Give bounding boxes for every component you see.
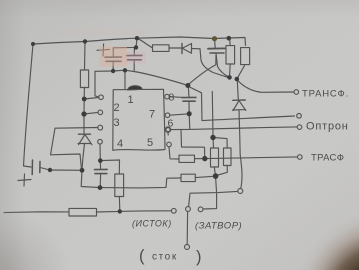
wire stok drop bbox=[186, 212, 188, 245]
wire pin5 to R3 bbox=[169, 147, 179, 159]
wire R4 to node B bbox=[195, 176, 215, 177]
resistor R5 bbox=[211, 148, 219, 167]
IC notch bbox=[128, 86, 143, 90]
wire R8 bottom bbox=[229, 64, 232, 77]
wire caps run to node8 bbox=[137, 72, 188, 85]
capacitor C5 bbox=[95, 161, 108, 188]
wire R3 to node A bbox=[195, 158, 205, 160]
wire R1 to diode bbox=[169, 47, 182, 49]
resistor R3 bbox=[179, 155, 195, 162]
wire node B down to gate bbox=[203, 176, 216, 209]
pin 4 circle bbox=[98, 139, 103, 144]
wire pin6 to optron lower bbox=[170, 127, 296, 130]
wire pin7 to node bbox=[170, 114, 189, 115]
resistor R6 bbox=[224, 148, 232, 166]
wire pin4 down bbox=[99, 144, 101, 161]
wire R2 bottom bbox=[118, 197, 120, 212]
wire node down to pin6 line bbox=[188, 114, 191, 130]
pin 6 circle bbox=[166, 127, 171, 132]
terminal stok bbox=[185, 245, 190, 250]
wire gnd run down-right bbox=[81, 170, 100, 187]
plus mark C1 bbox=[18, 174, 31, 186]
resistor R9 bbox=[241, 48, 250, 65]
wire node A to TRASF bbox=[205, 157, 297, 159]
wire node8 NE diagonal bbox=[188, 55, 217, 85]
pin 8 circle bbox=[165, 94, 170, 99]
terminal transf bbox=[294, 90, 299, 95]
terminal gate right bbox=[198, 207, 203, 212]
IC U1 body bbox=[113, 89, 165, 150]
wire left tall vertical bbox=[24, 44, 34, 167]
wire node8 SE to optron upper bbox=[189, 87, 295, 121]
wire pin3 bypass bbox=[51, 128, 99, 170]
wire R7 to istok bbox=[97, 211, 172, 212]
pin 2 circle bbox=[98, 110, 103, 115]
resistor R1 bbox=[153, 45, 170, 52]
resistor R8 bbox=[226, 46, 235, 64]
wire bus to pin2 bbox=[84, 112, 98, 114]
terminal TRASF bbox=[298, 155, 303, 160]
capacitor C4 top bbox=[208, 40, 229, 78]
wire diode down to node bbox=[200, 49, 229, 78]
resistor R2 bbox=[115, 174, 124, 197]
wire pin8 to C8 bbox=[169, 96, 182, 99]
wire top-left rail bbox=[33, 42, 85, 45]
diode VD2 bbox=[182, 44, 200, 54]
resistor R7 bbox=[69, 208, 97, 216]
wire caps bottom rail bbox=[95, 70, 137, 72]
wire left bus vertical bbox=[84, 42, 87, 71]
wire rail to R1 bbox=[137, 38, 153, 48]
wire pin6 drop to node A bbox=[168, 129, 205, 158]
pin 1 circle bbox=[99, 95, 104, 100]
wire cap B to IC notch bbox=[124, 70, 126, 88]
wire vertical to R divider bbox=[211, 92, 214, 138]
pin 7 circle bbox=[165, 113, 170, 118]
wire R6 bottom bbox=[216, 166, 228, 177]
wire top resistors junction bbox=[213, 138, 227, 149]
wire caps to pin1 corner bbox=[95, 71, 99, 97]
pink marker highlight bbox=[99, 47, 127, 67]
wire gate run bbox=[189, 191, 238, 206]
capacitor C1 bbox=[32, 160, 50, 175]
wire transf from node bbox=[237, 79, 294, 92]
wire top rail to corner bbox=[85, 37, 246, 46]
resistor R4 bbox=[181, 174, 195, 181]
wire R8 top bbox=[229, 38, 232, 45]
terminal node C bbox=[238, 189, 243, 194]
wire R5 bottom bbox=[214, 167, 215, 176]
paper grain & vignette bbox=[0, 0, 1, 1]
wire bus below R10 bbox=[83, 88, 85, 134]
capacitor C2 plus leads bbox=[105, 39, 137, 71]
pin 5 circle bbox=[167, 142, 172, 147]
wire C5 node to R2 top bbox=[100, 160, 119, 174]
terminal istok bbox=[171, 208, 176, 213]
bottom-right dark shadow bbox=[0, 0, 1, 1]
resistor R10 bbox=[80, 70, 88, 88]
wire mid horizontal to R4 bbox=[100, 178, 181, 188]
diode VD3 bbox=[233, 100, 246, 188]
capacitor C8 bbox=[182, 86, 196, 114]
plus mark C2 bbox=[97, 44, 110, 56]
wire R9 bottom bbox=[237, 65, 245, 79]
capacitor C3 bbox=[127, 48, 143, 71]
diode VD1 bbox=[78, 134, 92, 169]
wire bus to pin1 bbox=[84, 98, 98, 100]
terminal optron lower bbox=[297, 125, 302, 130]
terminal optron upper bbox=[297, 114, 302, 119]
wire diode VD3 top bbox=[237, 79, 238, 100]
wire bottom long run bbox=[4, 211, 69, 214]
wire cap to diode bottom bbox=[50, 169, 82, 171]
pin 3 circle bbox=[98, 125, 103, 130]
terminal gate left bbox=[186, 207, 191, 212]
